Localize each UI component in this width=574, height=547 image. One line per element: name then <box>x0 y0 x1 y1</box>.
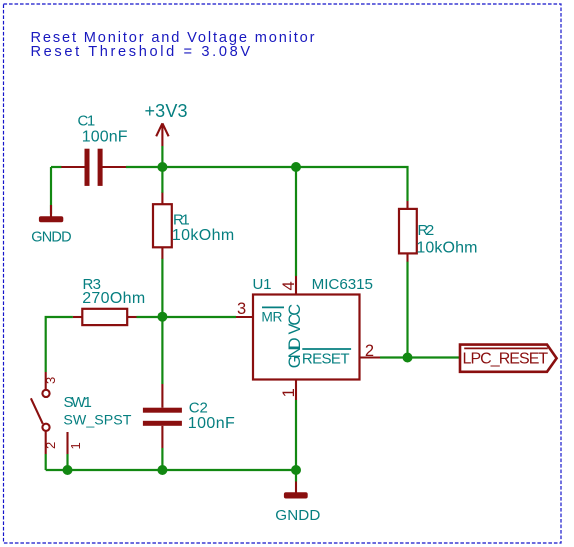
svg-text:MIC6315: MIC6315 <box>312 276 373 293</box>
svg-text:MR: MR <box>261 310 282 325</box>
power symbol +3V3 <box>156 123 168 146</box>
capacitor C2 <box>143 384 182 448</box>
junction E (407.5,357.5) <box>403 353 413 363</box>
svg-text:3: 3 <box>237 300 246 318</box>
wire: U1 VCC pin up to junction B <box>295 167 297 276</box>
svg-text:GNDD: GNDD <box>31 230 71 246</box>
svg-text:270Ohm: 270Ohm <box>82 290 145 307</box>
svg-text:U1: U1 <box>253 276 272 293</box>
wire: top rail junction B to R2 corner <box>296 167 408 201</box>
wire: C2 bottom to junction D <box>161 448 163 470</box>
resistor R1 <box>153 193 172 259</box>
svg-text:3: 3 <box>43 377 58 384</box>
ground GNDD (top left) <box>39 205 63 222</box>
wire: R2 bottom to junction E <box>406 262 408 358</box>
svg-text:LPC_RESET: LPC_RESET <box>463 350 549 367</box>
svg-text:RESET: RESET <box>302 350 350 367</box>
wire: GNDD1 vertical from C1 left <box>50 167 52 214</box>
svg-text:VCC: VCC <box>286 304 304 335</box>
wire: +3V3 stub down to junction A <box>161 146 163 167</box>
svg-text:100nF: 100nF <box>188 415 235 432</box>
svg-text:C1: C1 <box>78 113 96 130</box>
svg-text:10kOhm: 10kOhm <box>416 239 477 256</box>
pin 4 VCC top <box>295 276 297 295</box>
junction B (296,167) <box>291 162 301 172</box>
IC U1 MIC6315 reset supervisor <box>236 276 380 400</box>
wire: SW1 bottom to corner <box>45 454 47 470</box>
pin 3 MR left <box>236 316 253 318</box>
ground GNDD (bottom) <box>284 482 308 499</box>
wire: R3 left corner <box>46 317 73 372</box>
wire: SW1 pin1 stub to bottom rail <box>66 454 68 470</box>
wire: U1 GND pin down to junction F <box>295 400 297 470</box>
svg-text:10kOhm: 10kOhm <box>172 227 234 244</box>
resistor R2 <box>399 201 417 262</box>
wire: junction C to U1 MR pin <box>162 316 236 318</box>
junction C (162,317) <box>157 312 167 322</box>
junction on bottom rail at SW1 pin1 <box>63 465 73 475</box>
svg-text:R2: R2 <box>418 222 435 239</box>
svg-text:C2: C2 <box>189 400 208 417</box>
pin 2 RESET right <box>360 356 381 358</box>
svg-text:2: 2 <box>365 342 374 360</box>
note: schematic title text <box>31 30 315 60</box>
svg-text:100nF: 100nF <box>82 128 128 145</box>
svg-text:2: 2 <box>43 442 58 449</box>
svg-text:SW_SPST: SW_SPST <box>63 413 131 429</box>
junction A (162,167) <box>157 162 167 172</box>
svg-text:+3V3: +3V3 <box>145 101 188 121</box>
svg-text:4: 4 <box>280 281 298 290</box>
wire: R1 bottom to junction C <box>161 259 163 317</box>
switch SW1 <box>31 372 68 454</box>
svg-text:GNDD: GNDD <box>275 507 320 524</box>
global label LPC_RESET <box>460 345 557 372</box>
wire: top rail left segment to C1 <box>51 166 62 168</box>
junction on bottom rail at C2 <box>157 465 167 475</box>
wire: junction E to LPC_RESET label <box>408 356 461 358</box>
svg-text:1: 1 <box>68 442 83 449</box>
wire: junction C down to C2 <box>161 317 163 384</box>
wire: junction F to GNDD2 <box>295 470 297 482</box>
svg-text:R1: R1 <box>173 211 190 228</box>
svg-text:SW1: SW1 <box>64 394 92 411</box>
resistor R3 <box>73 309 137 325</box>
wire: bottom rail <box>46 469 296 471</box>
wire: R3 right to junction C <box>137 316 163 318</box>
pin 1 GND bottom <box>295 380 297 401</box>
wire: junction A down to R1 <box>161 167 163 193</box>
capacitor C1 <box>61 149 126 186</box>
wire: top rail junction A to junction B <box>162 166 296 168</box>
wire: top rail C1 to junction A <box>126 166 162 168</box>
svg-text:1: 1 <box>280 388 298 397</box>
wire: U1 RESET pin to junction E <box>380 356 408 358</box>
junction F bottom rail at U1 GND <box>291 465 301 475</box>
